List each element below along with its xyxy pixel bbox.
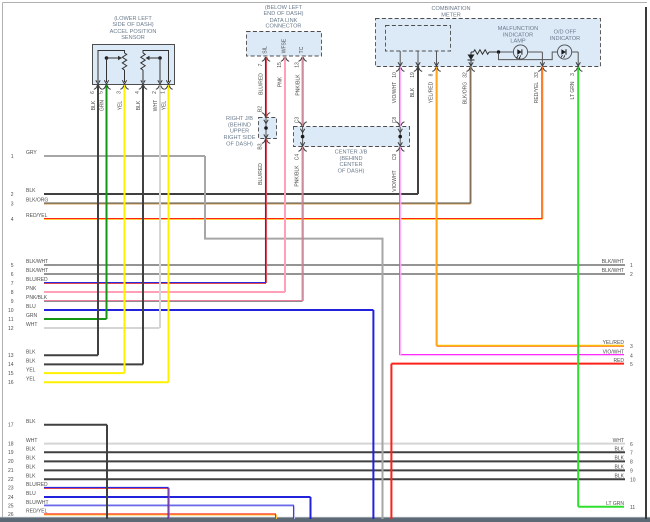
sensor pin 6 number: [90, 91, 96, 94]
sensor wire label YEL: [117, 101, 123, 111]
svg-text:4: 4: [630, 353, 633, 359]
wire row 13 BLK (left): [8, 350, 98, 360]
svg-text:7: 7: [11, 281, 14, 287]
wire row 3 YEL/RED (right): [437, 340, 634, 350]
wiper left pot: [105, 56, 122, 82]
svg-text:SENSOR: SENSOR: [121, 35, 145, 41]
svg-text:3: 3: [630, 344, 633, 350]
meter pin 10 number: [392, 72, 398, 78]
wire row 10 BLU (left): [8, 304, 373, 314]
wire row 22 BLK (left): [8, 473, 625, 483]
svg-text:TC: TC: [299, 46, 305, 53]
right J/B arrow in: [264, 120, 268, 124]
svg-text:BLK: BLK: [615, 447, 625, 453]
center J/B arrow in C3: [300, 129, 304, 133]
svg-text:7: 7: [630, 451, 633, 457]
meter inner wire pin 10: [399, 51, 401, 66]
svg-text:8: 8: [11, 290, 14, 296]
wire row 8 PNK (left): [11, 286, 285, 296]
center J/B arrow out C9: [398, 142, 402, 146]
svg-text:21: 21: [8, 468, 14, 474]
caption data link connector: [263, 5, 303, 29]
wire row 1 BLK/WHT (right): [602, 259, 633, 269]
svg-text:11: 11: [630, 505, 635, 511]
wire sensor pin 4 BLK drop: [142, 85, 144, 365]
wire row 2 BLK (left): [11, 188, 418, 198]
svg-text:10: 10: [630, 477, 636, 483]
wire RED/YEL row26 to bottom: [276, 514, 277, 519]
wire BLU/WHT row25 to bottom: [294, 506, 295, 519]
sensor wire label BLK: [136, 100, 142, 110]
wire row 5 RED (right): [391, 358, 633, 368]
wire row 26 RED/YEL (left): [8, 509, 276, 519]
svg-text:RIGHT SIDE: RIGHT SIDE: [224, 135, 256, 141]
sensor wire label WHT: [153, 100, 159, 111]
sensor pin 4 connector fork: [139, 86, 147, 90]
wire row 3 BLK/ORG (left): [11, 198, 471, 208]
meter pin 32 fork: [467, 68, 475, 72]
svg-text:PNK: PNK: [26, 286, 37, 292]
caption O/D OFF indicator: [550, 30, 580, 42]
svg-text:SIL: SIL: [263, 46, 269, 54]
wire sensor pin 3 YEL drop: [124, 85, 126, 374]
svg-text:YEL: YEL: [161, 101, 167, 111]
svg-text:C8: C8: [392, 117, 398, 124]
wire BLK meter pin19 to row2: [417, 67, 419, 195]
wire row 14 BLK (left): [8, 359, 143, 369]
DLC pin label SIL: [263, 46, 269, 54]
meter wire label YEL/RED: [429, 81, 435, 103]
DLC pin 7 number: [258, 63, 264, 66]
svg-text:GRN: GRN: [99, 100, 105, 112]
sensor pin 3 connector fork: [120, 86, 128, 90]
sensor pin 5 arrow: [104, 80, 108, 84]
svg-text:VIO/WHT: VIO/WHT: [392, 170, 398, 191]
sensor APS box: [93, 45, 175, 85]
caption center J/B: [335, 150, 368, 175]
svg-text:9: 9: [630, 469, 633, 475]
sensor pin 1 arrow: [166, 80, 170, 84]
svg-text:5: 5: [630, 362, 633, 368]
caption malfunction indicator lamp: [498, 26, 538, 44]
svg-text:INDICATOR: INDICATOR: [503, 32, 533, 38]
svg-text:GRN: GRN: [26, 313, 38, 319]
wire GRY route row1 to bottom: [205, 156, 383, 519]
svg-text:1: 1: [11, 154, 14, 160]
meter pin 8 fork: [432, 68, 440, 72]
wire row 16 YEL (left): [8, 376, 169, 386]
sensor pin 1 connector fork: [164, 86, 172, 90]
DLC pin 7 connector fork: [262, 58, 270, 62]
wire row 7 BLK (right): [615, 447, 633, 457]
DLC pin 15 number: [277, 62, 283, 68]
DLC pin label WFSE: [282, 38, 288, 53]
wire BLU row10 to bottom: [372, 310, 374, 519]
svg-text:O/D OFF: O/D OFF: [554, 30, 577, 36]
wire label BLU/RED lower: [258, 163, 264, 185]
svg-text:23: 23: [8, 486, 14, 492]
wire row 21 BLK (left): [8, 465, 625, 475]
diode D1 (meter pin32 branch): [468, 52, 475, 66]
wire sensor pin 1 YEL drop: [168, 85, 170, 383]
wire row 17 BLK (left): [8, 419, 107, 429]
svg-text:BLK: BLK: [136, 100, 142, 110]
svg-text:1: 1: [630, 263, 633, 269]
wire row 5 BLK/WHT (left): [11, 259, 625, 269]
caption accel position sensor: [110, 16, 157, 41]
wire sensor right pot top: [143, 51, 169, 83]
meter inner wire pin 8: [436, 51, 438, 66]
svg-text:24: 24: [8, 495, 14, 501]
wire VIO/WHT meter pin10 to centerJB: [400, 67, 401, 127]
svg-text:10: 10: [392, 72, 398, 78]
svg-text:8: 8: [429, 73, 435, 76]
wire row 9 BLK (right): [615, 465, 633, 475]
bottom collapsed band: [0, 517, 650, 522]
svg-text:LAMP: LAMP: [510, 39, 526, 45]
wire row 23 BLU/RED (left): [8, 482, 169, 492]
meter pin 10 arrow: [398, 62, 402, 66]
svg-text:WFSE: WFSE: [282, 38, 288, 53]
DLC wire label PNK/BLK: [295, 74, 301, 96]
wire row 19 BLK (left): [8, 447, 625, 457]
svg-text:COMBINATION: COMBINATION: [431, 6, 470, 12]
wire BLU/RED DLC to rightJB: [266, 57, 267, 118]
sensor pin 2 number: [152, 91, 158, 94]
wire BLU/RED row23 to bottom: [168, 488, 169, 519]
wire VIO/WHT centerJB to right row4: [400, 146, 401, 355]
svg-text:14: 14: [8, 362, 14, 368]
svg-text:6: 6: [630, 442, 633, 448]
svg-text:19: 19: [410, 72, 416, 78]
svg-text:3: 3: [117, 91, 123, 94]
svg-text:3: 3: [11, 201, 14, 207]
meter pin 10 fork: [396, 68, 404, 72]
svg-text:WHT: WHT: [153, 100, 159, 111]
resistor right pot (sensor): [141, 53, 145, 70]
svg-text:WHT: WHT: [26, 322, 37, 328]
DLC pin 13 connector fork: [298, 58, 306, 62]
wire sensor pin 5 GRN drop: [106, 85, 108, 320]
svg-text:BLK/WHT: BLK/WHT: [602, 268, 624, 274]
wire row 9 PNK/BLK (left): [11, 295, 303, 305]
wire label PNK/BLK lower: [295, 165, 301, 187]
DLC wire label BLU/RED: [259, 73, 265, 95]
svg-text:BLK: BLK: [410, 87, 416, 97]
svg-text:BLU: BLU: [26, 304, 36, 310]
svg-text:BLU/RED: BLU/RED: [258, 163, 264, 185]
svg-text:3: 3: [570, 73, 576, 76]
meter pin 8 number: [429, 73, 435, 76]
meter pin 19 fork: [414, 68, 422, 72]
wire row 2 BLK/WHT (right): [602, 268, 633, 278]
svg-text:19: 19: [8, 450, 14, 456]
caption combination meter: [431, 6, 470, 18]
svg-text:1: 1: [161, 91, 167, 94]
svg-text:BLK: BLK: [26, 188, 36, 194]
wire row 8 BLK (right): [615, 456, 633, 466]
center J/B pin C9: [392, 154, 398, 161]
center J/B junction dot C8: [398, 135, 402, 139]
svg-text:26: 26: [8, 512, 14, 518]
sensor pin 3 arrow: [122, 80, 126, 84]
wire PNK/BLK DLC to centerJB: [302, 57, 303, 127]
sensor wire label BLK: [91, 100, 97, 110]
wire sensor pin 2 WHT drop: [159, 85, 161, 329]
svg-text:OF DASH): OF DASH): [338, 168, 365, 174]
svg-text:18: 18: [8, 441, 14, 447]
page border left: [2, 3, 4, 519]
svg-text:8: 8: [630, 460, 633, 466]
sensor pin 2 arrow: [158, 80, 162, 84]
center J/B fork in C3: [298, 122, 306, 126]
svg-text:20: 20: [8, 459, 14, 465]
wire BLK/ORG meter pin32 to row3: [470, 67, 471, 204]
node MIL junction dot: [497, 50, 501, 54]
center J/B box: [294, 127, 410, 147]
meter pin 3 number: [570, 73, 576, 76]
wire BLU/RED rightJB to row7: [266, 138, 267, 283]
connector DLC box: [247, 32, 322, 57]
svg-text:INDICATOR: INDICATOR: [550, 36, 580, 42]
svg-text:15: 15: [277, 62, 283, 68]
svg-text:6: 6: [90, 91, 96, 94]
svg-text:(BEHIND: (BEHIND: [340, 156, 363, 162]
svg-text:9: 9: [11, 299, 14, 305]
sensor wire label GRN: [99, 100, 105, 112]
svg-text:C3: C3: [294, 117, 300, 124]
svg-text:2: 2: [630, 272, 633, 278]
DLC pin 13 number: [295, 62, 301, 68]
svg-text:13: 13: [295, 62, 301, 68]
center J/B pin C3: [294, 117, 300, 124]
svg-text:RED/YEL: RED/YEL: [534, 82, 540, 104]
svg-text:BLK: BLK: [26, 447, 36, 453]
meter wire label BLK/ORG: [463, 82, 469, 104]
svg-text:13: 13: [8, 353, 14, 359]
sensor pin 5 number: [99, 91, 105, 94]
wire sensor left pot top: [98, 51, 125, 83]
DLC pin label TC: [299, 46, 305, 53]
caption right J/B: [224, 116, 256, 147]
svg-text:BLK/WHT: BLK/WHT: [602, 259, 624, 265]
svg-text:BLK: BLK: [26, 359, 36, 365]
svg-text:METER: METER: [441, 12, 461, 18]
wire row 4 RED/YEL (left): [11, 213, 543, 223]
lamp MIL circle: [513, 45, 527, 59]
meter inner unit box: [386, 26, 451, 52]
meter wire label VIO/WHT: [392, 82, 398, 103]
wire sensor pin4 inner: [142, 70, 144, 82]
svg-text:GRY: GRY: [26, 150, 37, 156]
meter pin 19 arrow: [416, 62, 420, 66]
sensor pin 3 number: [117, 91, 123, 94]
svg-text:BLK: BLK: [26, 419, 36, 425]
wire row 24 BLU (left): [8, 491, 311, 501]
meter pin 32 number: [463, 72, 469, 78]
page border top: [3, 2, 648, 4]
meter wire label RED/YEL: [534, 82, 540, 104]
svg-text:10: 10: [8, 308, 14, 314]
svg-text:END OF DASH): END OF DASH): [263, 11, 303, 17]
sensor pin 6 arrow: [96, 80, 100, 84]
right J/B fork out: [262, 140, 270, 144]
wire row 6 BLK/WHT (left): [11, 268, 625, 278]
wiper right pot: [146, 56, 162, 82]
wire row 11 GRN (left): [8, 313, 106, 323]
svg-text:RIGHT J/B: RIGHT J/B: [226, 116, 253, 122]
center J/B fork in C8: [396, 122, 404, 126]
wire row 18 WHT (left): [8, 438, 625, 448]
wire PNK DLC to row8: [284, 57, 286, 292]
meter wire label LT GRN: [570, 81, 576, 99]
DLC wire label PNK: [278, 76, 284, 87]
svg-text:16: 16: [8, 380, 14, 386]
svg-text:(BEHIND: (BEHIND: [228, 122, 251, 128]
center J/B junction dot C3: [301, 135, 305, 139]
sensor pin 4 arrow: [141, 80, 145, 84]
svg-text:22: 22: [8, 477, 14, 483]
wire row 4 VIO/WHT (right): [400, 349, 633, 359]
meter pin 33 arrow: [540, 62, 544, 66]
svg-text:BLK/ORG: BLK/ORG: [463, 82, 469, 104]
svg-text:YEL: YEL: [26, 376, 36, 382]
combination meter box: [376, 19, 601, 67]
meter pin 33 number: [534, 72, 540, 78]
center J/B pin C8: [392, 117, 398, 124]
wire row 10 BLK (right): [615, 473, 636, 483]
svg-text:UPPER: UPPER: [230, 129, 249, 135]
wire RED/YEL meter pin33 to row4: [542, 67, 543, 220]
wire row 1 GRY (left): [11, 150, 205, 160]
center J/B fork out C4: [298, 148, 306, 152]
svg-text:C9: C9: [392, 154, 398, 161]
wire label VIO/WHT lower: [392, 170, 398, 191]
svg-text:5: 5: [11, 263, 14, 269]
svg-text:6: 6: [11, 272, 14, 278]
sensor pin 2 connector fork: [156, 86, 164, 90]
svg-text:BLK: BLK: [615, 473, 625, 479]
wire BLU row24 to bottom: [310, 497, 312, 519]
svg-text:PNK: PNK: [278, 76, 284, 87]
meter pin 3 fork: [574, 68, 582, 72]
right J/B internal wire: [265, 118, 267, 139]
right J/B arrow out: [264, 134, 268, 138]
center J/B internal wire C3-C4: [302, 127, 304, 146]
svg-text:PNK/BLK: PNK/BLK: [295, 74, 301, 96]
svg-text:CENTER J/B: CENTER J/B: [335, 150, 368, 156]
svg-text:2: 2: [152, 91, 158, 94]
svg-text:SIDE OF DASH): SIDE OF DASH): [112, 22, 153, 28]
wire sensor pin3 inner: [124, 70, 126, 82]
wire row 12 WHT (left): [8, 322, 160, 332]
sensor pin 4 number: [135, 91, 141, 94]
DLC pin 15 connector fork: [281, 58, 289, 62]
svg-text:7: 7: [258, 63, 264, 66]
wire YEL/RED meter pin8 to right row3: [436, 67, 437, 346]
svg-text:WHT: WHT: [613, 438, 624, 444]
resistor left pot (sensor): [122, 53, 126, 70]
svg-text:33: 33: [534, 72, 540, 78]
svg-text:2: 2: [11, 192, 14, 198]
wire row 7 BLU/RED (left): [11, 277, 266, 287]
svg-text:MALFUNCTION: MALFUNCTION: [498, 26, 538, 32]
meter pin 3 arrow: [576, 62, 580, 66]
svg-text:B3: B3: [258, 143, 264, 149]
svg-text:5: 5: [99, 91, 105, 94]
meter pin 32 arrow: [469, 62, 473, 66]
svg-text:11: 11: [8, 317, 13, 323]
wire BLK row17 to bottom: [106, 425, 108, 519]
svg-text:VIO/WHT: VIO/WHT: [392, 82, 398, 103]
meter pin 8 arrow: [434, 62, 438, 66]
svg-text:BLK: BLK: [615, 456, 625, 462]
wire row 11 LT GRN (right): [578, 501, 635, 511]
svg-text:C4: C4: [294, 154, 300, 161]
svg-text:WHT: WHT: [26, 438, 37, 444]
svg-text:BLU: BLU: [26, 491, 36, 497]
svg-text:15: 15: [8, 371, 14, 377]
svg-text:4: 4: [135, 91, 141, 94]
wire RED right row5 to bottom: [390, 364, 392, 519]
right J/B pin B3: [258, 143, 264, 149]
right J/B junction dot: [264, 126, 268, 130]
center J/B arrow out C4: [300, 142, 304, 146]
meter pin 33 fork: [538, 68, 546, 72]
sensor pin 1 number: [161, 91, 167, 94]
svg-text:BLK: BLK: [91, 100, 97, 110]
wire O/D to pin 3: [572, 52, 578, 66]
center J/B fork out C9: [396, 148, 404, 152]
svg-text:BLK: BLK: [615, 465, 625, 471]
svg-text:BLK: BLK: [26, 473, 36, 479]
meter inner wire pin 19: [417, 51, 419, 66]
wire LT GRN meter pin3 to right row11: [577, 67, 579, 507]
lamp O/D OFF circle: [558, 45, 572, 59]
svg-text:BLK: BLK: [26, 465, 36, 471]
svg-text:CONNECTOR: CONNECTOR: [266, 23, 302, 29]
center J/B pin C4: [294, 154, 300, 161]
svg-text:BLK: BLK: [26, 456, 36, 462]
svg-text:YEL: YEL: [117, 101, 123, 111]
svg-text:4: 4: [11, 217, 14, 223]
center J/B arrow in C8: [398, 129, 402, 133]
meter wire label BLK: [410, 87, 416, 97]
meter pin 19 number: [410, 72, 416, 78]
svg-text:BLU/RED: BLU/RED: [259, 73, 265, 95]
wire row 6 WHT (right): [613, 438, 633, 448]
svg-text:OF DASH): OF DASH): [226, 141, 253, 147]
wire sensor pin 6 BLK drop: [97, 85, 99, 356]
wire MIL lamp top path: [500, 52, 542, 66]
svg-text:BLK: BLK: [26, 350, 36, 356]
right J/B fork in: [262, 113, 270, 117]
svg-text:12: 12: [8, 326, 14, 332]
svg-text:LT GRN: LT GRN: [570, 81, 576, 99]
svg-text:CENTER: CENTER: [340, 162, 363, 168]
wire BLK right edge: [645, 7, 647, 519]
center J/B internal wire C8-C9: [399, 127, 401, 146]
sensor pin 6 connector fork: [94, 86, 102, 90]
wire O/D lower path: [499, 52, 558, 60]
svg-text:YEL/RED: YEL/RED: [429, 81, 435, 103]
svg-text:B2: B2: [258, 106, 264, 112]
svg-text:PNK/BLK: PNK/BLK: [295, 165, 301, 187]
wire row 25 BLU/WHT (left): [8, 500, 294, 510]
wire row 15 YEL (left): [8, 367, 125, 377]
resistor R1 (MIL feed): [471, 50, 497, 54]
svg-text:25: 25: [8, 504, 14, 510]
